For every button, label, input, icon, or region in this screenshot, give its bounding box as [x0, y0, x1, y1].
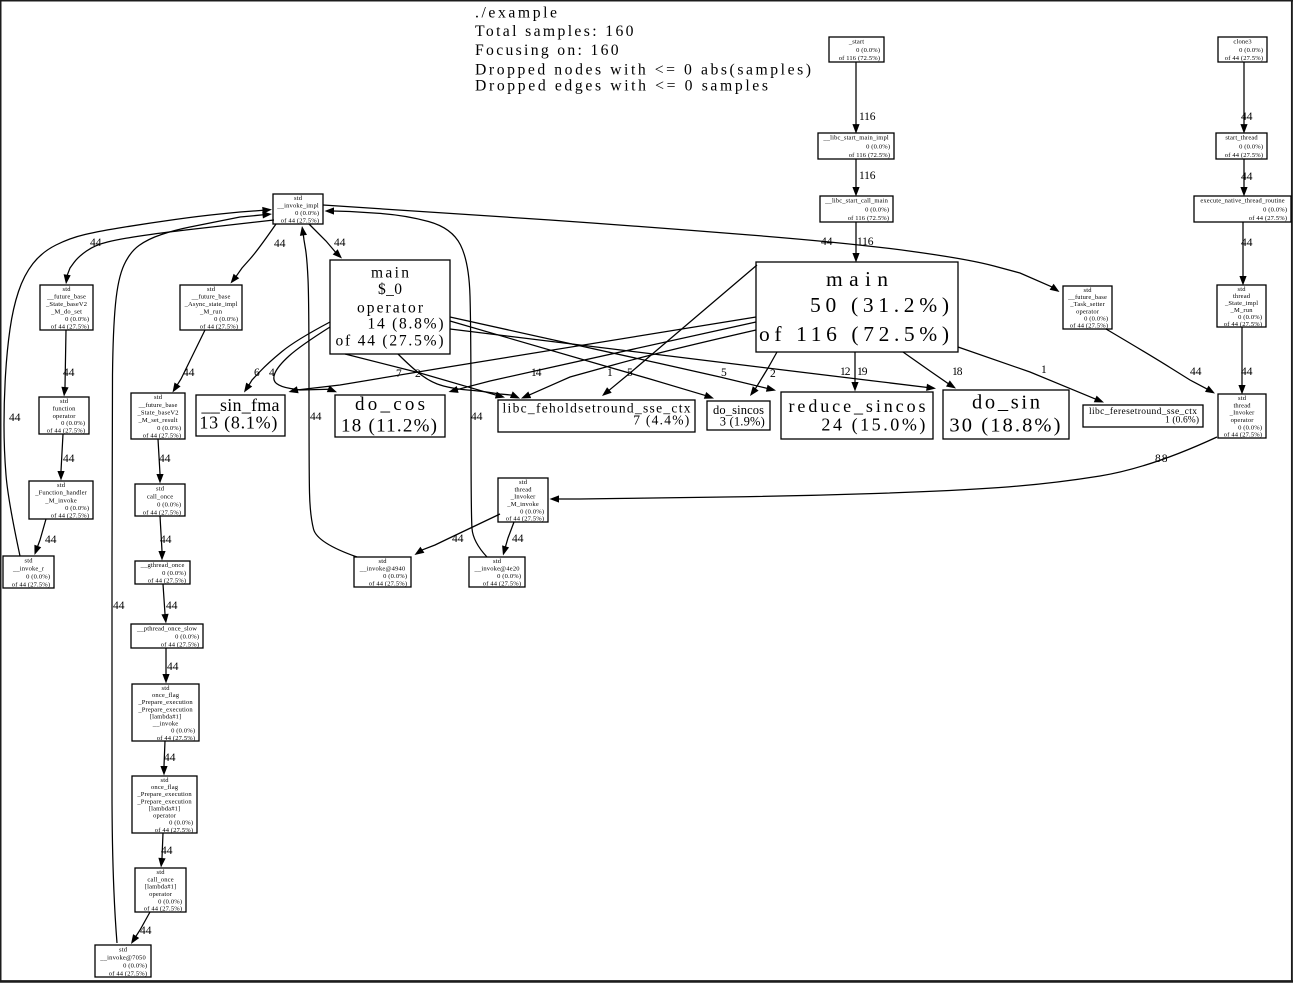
svg-text:__future_base: __future_base — [46, 294, 86, 301]
svg-text:of 44 (27.5%): of 44 (27.5%) — [143, 433, 181, 440]
svg-text:0 (0.0%): 0 (0.0%) — [157, 425, 181, 432]
svg-text:0 (0.0%): 0 (0.0%) — [1084, 316, 1108, 323]
svg-text:19: 19 — [857, 366, 868, 378]
svg-text:44: 44 — [63, 367, 75, 379]
svg-text:std: std — [1238, 395, 1247, 402]
svg-text:__libc_start_main_impl: __libc_start_main_impl — [822, 135, 888, 142]
svg-text:std: std — [161, 777, 170, 784]
svg-text:44: 44 — [161, 845, 173, 857]
svg-text:Focusing on: 160: Focusing on: 160 — [475, 42, 619, 59]
svg-text:0 (0.0%): 0 (0.0%) — [1239, 143, 1263, 150]
svg-text:44: 44 — [1190, 366, 1202, 378]
svg-text:call_once: call_once — [147, 493, 173, 500]
svg-text:0 (0.0%): 0 (0.0%) — [856, 47, 880, 54]
svg-text:44: 44 — [310, 411, 322, 423]
svg-text:std: std — [493, 558, 502, 565]
svg-text:__future_base: __future_base — [191, 294, 231, 301]
svg-text:[lambda#1]: [lambda#1] — [145, 884, 177, 891]
svg-text:__invoke_r: __invoke_r — [12, 565, 45, 572]
svg-text:_Function_handler: _Function_handler — [34, 490, 87, 497]
svg-text:_Task_setter: _Task_setter — [1069, 301, 1105, 308]
svg-text:44: 44 — [452, 533, 464, 545]
svg-text:[lambda#1]: [lambda#1] — [150, 713, 182, 720]
svg-text:__invoke@7050: __invoke@7050 — [99, 954, 145, 961]
svg-text:5: 5 — [627, 367, 633, 379]
svg-text:6: 6 — [254, 367, 260, 379]
svg-text:of 116 (72.5%): of 116 (72.5%) — [759, 322, 949, 346]
svg-text:0 (0.0%): 0 (0.0%) — [520, 508, 544, 515]
svg-text:std: std — [25, 557, 34, 564]
svg-text:of 116 (72.5%): of 116 (72.5%) — [839, 55, 880, 62]
svg-text:_Async_state_impl: _Async_state_impl — [184, 301, 238, 308]
svg-text:0 (0.0%): 0 (0.0%) — [169, 820, 193, 827]
svg-text:18: 18 — [952, 366, 963, 378]
svg-text:0 (0.0%): 0 (0.0%) — [866, 143, 890, 150]
svg-text:thread: thread — [1233, 293, 1251, 300]
svg-text:0 (0.0%): 0 (0.0%) — [865, 206, 889, 213]
svg-text:of 44 (27.5%): of 44 (27.5%) — [109, 970, 147, 977]
svg-text:main: main — [826, 267, 888, 291]
svg-text:operator: operator — [357, 300, 424, 317]
svg-text:0 (0.0%): 0 (0.0%) — [1238, 314, 1262, 321]
svg-text:13 (8.1%): 13 (8.1%) — [199, 413, 277, 434]
svg-text:1: 1 — [607, 367, 613, 379]
svg-text:0 (0.0%): 0 (0.0%) — [1239, 47, 1263, 54]
svg-text:_M_set_result: _M_set_result — [137, 417, 177, 424]
svg-text:of 44 (27.5%): of 44 (27.5%) — [483, 581, 521, 588]
svg-text:std: std — [57, 482, 66, 489]
svg-text:std: std — [1238, 286, 1247, 293]
svg-text:of 44 (27.5%): of 44 (27.5%) — [200, 324, 238, 331]
svg-text:of 44 (27.5%): of 44 (27.5%) — [1070, 323, 1108, 330]
svg-text:7 (4.4%): 7 (4.4%) — [633, 413, 689, 428]
svg-text:44: 44 — [90, 237, 102, 249]
svg-text:clone3: clone3 — [1233, 39, 1251, 46]
svg-text:__libc_start_call_main: __libc_start_call_main — [824, 198, 888, 205]
svg-text:of 44 (27.5%): of 44 (27.5%) — [161, 641, 199, 648]
svg-text:88: 88 — [1155, 453, 1168, 465]
svg-text:of 44 (27.5%): of 44 (27.5%) — [51, 324, 89, 331]
svg-text:of 44 (27.5%): of 44 (27.5%) — [148, 578, 186, 585]
svg-text:execute_native_thread_routine: execute_native_thread_routine — [1200, 198, 1284, 205]
svg-text:116: 116 — [859, 170, 876, 182]
svg-text:std: std — [379, 558, 388, 565]
svg-text:_M_run: _M_run — [199, 309, 223, 316]
svg-text:0 (0.0%): 0 (0.0%) — [26, 573, 50, 580]
svg-text:thread: thread — [514, 486, 532, 493]
svg-text:operator: operator — [149, 891, 173, 898]
svg-text:[lambda#1]: [lambda#1] — [149, 805, 181, 812]
svg-text:44: 44 — [183, 367, 195, 379]
svg-text:of 44 (27.5%): of 44 (27.5%) — [506, 516, 544, 523]
svg-text:__gthread_once: __gthread_once — [140, 562, 185, 569]
svg-text:Total samples: 160: Total samples: 160 — [475, 23, 634, 40]
svg-text:5: 5 — [721, 367, 727, 379]
svg-text:14 (8.8%): 14 (8.8%) — [368, 316, 444, 333]
svg-text:of 44 (27.5%): of 44 (27.5%) — [369, 581, 407, 588]
svg-text:0 (0.0%): 0 (0.0%) — [162, 570, 186, 577]
svg-text:7: 7 — [396, 368, 402, 380]
svg-text:18 (11.2%): 18 (11.2%) — [341, 416, 437, 437]
svg-text:44: 44 — [164, 752, 176, 764]
svg-text:do_sin: do_sin — [972, 392, 1040, 414]
svg-text:std: std — [119, 946, 128, 953]
svg-text:__invoke@4940: __invoke@4940 — [359, 566, 405, 573]
svg-text:44: 44 — [274, 238, 286, 250]
svg-text:_M_run: _M_run — [1230, 307, 1254, 314]
svg-text:0 (0.0%): 0 (0.0%) — [1238, 424, 1262, 431]
svg-text:0 (0.0%): 0 (0.0%) — [65, 316, 89, 323]
svg-text:__future_base: __future_base — [138, 402, 178, 409]
svg-text:std: std — [519, 479, 528, 486]
svg-text:44: 44 — [160, 534, 172, 546]
svg-text:__pthread_once_slow: __pthread_once_slow — [136, 625, 197, 632]
svg-text:14: 14 — [531, 367, 542, 379]
svg-text:0 (0.0%): 0 (0.0%) — [214, 316, 238, 323]
svg-text:__invoke: __invoke — [152, 721, 179, 728]
svg-text:thread: thread — [1233, 402, 1251, 409]
svg-text:of 44 (27.5%): of 44 (27.5%) — [336, 333, 444, 350]
svg-text:operator: operator — [53, 413, 77, 420]
svg-text:_Prepare_execution: _Prepare_execution — [137, 706, 193, 713]
svg-text:std: std — [60, 398, 69, 405]
svg-text:50 (31.2%): 50 (31.2%) — [810, 293, 949, 317]
svg-text:_State_baseV2: _State_baseV2 — [137, 410, 179, 417]
svg-text:of 116 (72.5%): of 116 (72.5%) — [849, 152, 890, 159]
svg-text:_Invoker: _Invoker — [1229, 410, 1256, 417]
svg-text:std: std — [1084, 287, 1093, 294]
svg-text:std: std — [154, 394, 163, 401]
svg-text:of 44 (27.5%): of 44 (27.5%) — [144, 906, 182, 913]
svg-text:std: std — [157, 869, 166, 876]
svg-text:of 44 (27.5%): of 44 (27.5%) — [155, 827, 193, 834]
svg-text:12: 12 — [840, 366, 851, 378]
svg-text:std: std — [156, 485, 165, 492]
svg-text:_M_invoke: _M_invoke — [506, 501, 539, 508]
svg-text:std: std — [162, 685, 171, 692]
svg-text:0 (0.0%): 0 (0.0%) — [65, 505, 89, 512]
svg-text:44: 44 — [63, 453, 75, 465]
svg-text:of 44 (27.5%): of 44 (27.5%) — [51, 513, 89, 520]
svg-text:_State_baseV2: _State_baseV2 — [45, 301, 87, 308]
svg-text:44: 44 — [9, 412, 21, 424]
svg-text:__invoke@4e20: __invoke@4e20 — [474, 566, 520, 573]
svg-text:std: std — [207, 286, 216, 293]
svg-text:44: 44 — [821, 236, 833, 248]
svg-text:0 (0.0%): 0 (0.0%) — [171, 728, 195, 735]
svg-text:116: 116 — [857, 236, 874, 248]
svg-text:0 (0.0%): 0 (0.0%) — [1263, 206, 1287, 213]
svg-text:once_flag: once_flag — [152, 692, 180, 699]
svg-text:2: 2 — [770, 368, 776, 380]
svg-text:0 (0.0%): 0 (0.0%) — [175, 633, 199, 640]
svg-text:_M_do_set: _M_do_set — [50, 309, 82, 316]
svg-text:24 (15.0%): 24 (15.0%) — [821, 415, 925, 436]
svg-text:44: 44 — [45, 534, 57, 546]
svg-text:2: 2 — [415, 368, 421, 380]
svg-text:_State_impl: _State_impl — [1224, 300, 1258, 307]
svg-text:0 (0.0%): 0 (0.0%) — [497, 573, 521, 580]
svg-text:44: 44 — [140, 925, 152, 937]
svg-text:of 44 (27.5%): of 44 (27.5%) — [143, 509, 181, 516]
svg-text:operator: operator — [1231, 417, 1255, 424]
svg-text:44: 44 — [512, 533, 524, 545]
svg-text:1: 1 — [1041, 364, 1047, 376]
svg-text:44: 44 — [1241, 171, 1253, 183]
svg-text:_Prepare_execution: _Prepare_execution — [136, 791, 192, 798]
svg-text:0 (0.0%): 0 (0.0%) — [61, 420, 85, 427]
svg-text:116: 116 — [859, 111, 876, 123]
svg-text:0 (0.0%): 0 (0.0%) — [295, 210, 319, 217]
svg-text:of 44 (27.5%): of 44 (27.5%) — [281, 218, 319, 225]
svg-text:start_thread: start_thread — [1225, 135, 1258, 142]
svg-text:3 (1.9%): 3 (1.9%) — [720, 414, 765, 428]
svg-text:operator: operator — [153, 813, 177, 820]
svg-text:44: 44 — [1241, 237, 1253, 249]
svg-text:of 116 (72.5%): of 116 (72.5%) — [848, 215, 889, 222]
svg-text:once_flag: once_flag — [151, 784, 179, 791]
svg-text:44: 44 — [471, 411, 483, 423]
svg-text:function: function — [53, 405, 77, 412]
svg-text:__invoke_impl: __invoke_impl — [276, 203, 319, 210]
svg-text:call_once: call_once — [147, 876, 173, 883]
svg-text:of 44 (27.5%): of 44 (27.5%) — [1225, 152, 1263, 159]
svg-text:0 (0.0%): 0 (0.0%) — [157, 501, 181, 508]
svg-text:of 44 (27.5%): of 44 (27.5%) — [1249, 215, 1287, 222]
svg-text:of 44 (27.5%): of 44 (27.5%) — [47, 428, 85, 435]
svg-text:std: std — [294, 195, 303, 202]
svg-text:44: 44 — [159, 453, 171, 465]
svg-text:44: 44 — [113, 600, 125, 612]
svg-text:of 44 (27.5%): of 44 (27.5%) — [1225, 55, 1263, 62]
svg-text:0 (0.0%): 0 (0.0%) — [123, 962, 147, 969]
svg-text:30 (18.8%): 30 (18.8%) — [949, 415, 1060, 437]
svg-text:of 44 (27.5%): of 44 (27.5%) — [12, 581, 50, 588]
svg-text:std: std — [63, 286, 72, 293]
svg-text:1 (0.6%): 1 (0.6%) — [1165, 415, 1199, 426]
svg-text:of 44 (27.5%): of 44 (27.5%) — [157, 735, 195, 742]
svg-text:__future_base: __future_base — [1067, 294, 1107, 301]
svg-text:of 44 (27.5%): of 44 (27.5%) — [1224, 321, 1262, 328]
svg-text:operator: operator — [1076, 308, 1100, 315]
svg-text:_Prepare_execution: _Prepare_execution — [136, 798, 192, 805]
svg-text:4: 4 — [269, 367, 275, 379]
svg-text:of 44 (27.5%): of 44 (27.5%) — [1224, 432, 1262, 439]
svg-text:44: 44 — [334, 237, 346, 249]
svg-text:Dropped edges with <= 0 sample: Dropped edges with <= 0 samples — [475, 78, 768, 95]
svg-text:$_0: $_0 — [378, 281, 402, 298]
svg-text:44: 44 — [167, 661, 179, 673]
svg-text:_start: _start — [848, 39, 864, 46]
svg-text:0 (0.0%): 0 (0.0%) — [158, 898, 182, 905]
svg-text:_M_invoke: _M_invoke — [44, 497, 77, 504]
svg-text:_Prepare_execution: _Prepare_execution — [137, 699, 193, 706]
svg-text:44: 44 — [1241, 111, 1253, 123]
svg-text:main: main — [371, 265, 409, 282]
svg-text:44: 44 — [166, 600, 178, 612]
svg-text:_Invoker: _Invoker — [510, 494, 537, 501]
svg-text:44: 44 — [1241, 366, 1253, 378]
svg-text:0 (0.0%): 0 (0.0%) — [383, 573, 407, 580]
